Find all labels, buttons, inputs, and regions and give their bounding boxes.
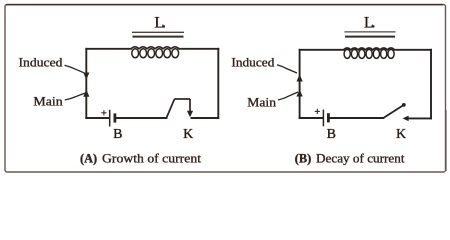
svg-text:Induced: Induced — [19, 54, 64, 69]
svg-text:B: B — [327, 127, 336, 142]
battery B (B): plus sign — [315, 109, 320, 114]
svg-text:B: B — [113, 127, 122, 142]
switch K (B): open blade diagonal — [383, 106, 402, 118]
wire A left vertical — [85, 49, 87, 118]
svg-text:L: L — [364, 14, 373, 31]
wire A bottom left (to battery) — [86, 117, 109, 119]
border frame — [4, 5, 447, 174]
battery B (B): short plate — [327, 113, 330, 122]
induced-current arrow (A, down) — [83, 73, 89, 80]
inductor L (B): core lines — [345, 31, 396, 33]
switch K (A): closing arrow shaft — [189, 99, 191, 113]
switch K (A): blade diagonal — [166, 99, 174, 118]
leader line Main (B) — [278, 92, 298, 100]
inductor L (A): coil loops — [132, 49, 179, 58]
wire A top right segment — [179, 48, 218, 50]
svg-text:K: K — [183, 127, 193, 142]
switch K (B): blade tip dot — [402, 103, 406, 107]
battery B (A): long plate — [109, 110, 111, 127]
induced-current arrow (B, up) — [297, 74, 303, 81]
wire B bottom right (contact to corner) — [408, 117, 432, 119]
svg-text:Main: Main — [33, 94, 63, 109]
wire A bottom mid (battery to switch) — [116, 117, 166, 119]
svg-text:Induced: Induced — [231, 54, 275, 69]
svg-text:(B): (B) — [295, 151, 311, 165]
wire B top left segment — [300, 49, 344, 51]
wire B right vertical — [430, 50, 432, 119]
inductor L (B): coil humps — [344, 48, 395, 50]
inductor L (B): coil loops — [344, 49, 394, 58]
wire B bottom left (to battery) — [300, 117, 323, 119]
inductor L (A): core lines — [132, 31, 184, 33]
svg-text:(A): (A) — [80, 151, 97, 165]
leader line Induced (A) — [65, 65, 85, 73]
main-current arrow (B, up) — [297, 89, 303, 96]
inductor L (A): coil humps — [131, 47, 179, 49]
main-current arrow (A, up) — [83, 89, 89, 96]
wire A right vertical — [217, 49, 219, 118]
battery B (A): plus sign — [101, 110, 106, 115]
svg-text:K: K — [396, 127, 406, 142]
wire B left vertical — [299, 50, 301, 118]
battery B (B): long plate — [322, 110, 324, 127]
switch K (B): fixed contact arrow head — [403, 116, 409, 122]
wire A bottom right (switch to corner) — [192, 117, 219, 119]
wire A top left segment — [86, 48, 131, 50]
switch K (A): closing arrow head — [187, 111, 193, 117]
svg-text:Main: Main — [247, 95, 276, 110]
wire B bottom mid (battery to switch) — [330, 117, 384, 119]
svg-text:L: L — [154, 15, 164, 32]
switch K (A): top horizontal — [175, 98, 191, 100]
wire B top right segment — [395, 49, 432, 51]
battery B (A): short plate — [114, 113, 117, 122]
svg-text:Growth of current: Growth of current — [102, 151, 202, 165]
leader line Main (A) — [65, 93, 85, 100]
leader line Induced (B) — [277, 65, 297, 73]
svg-text:Decay of current: Decay of current — [316, 151, 405, 165]
